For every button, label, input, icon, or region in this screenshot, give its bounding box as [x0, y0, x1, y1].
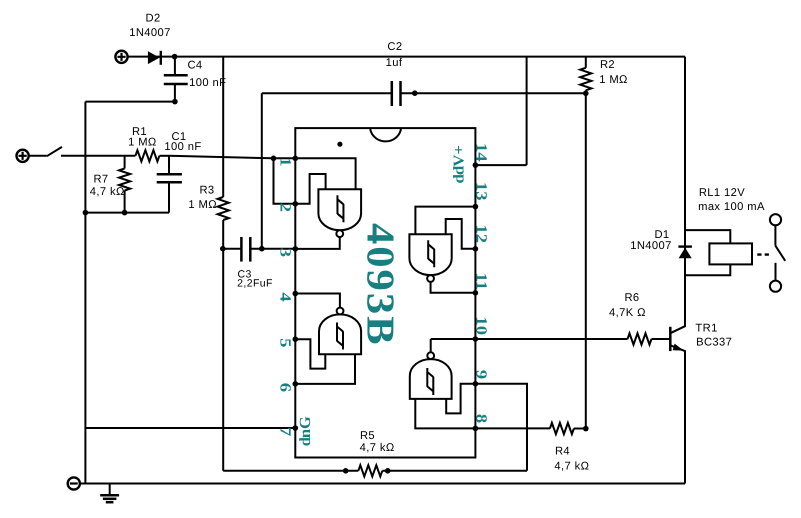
svg-text:100 nF: 100 nF	[189, 77, 226, 89]
svg-text:5: 5	[277, 338, 294, 348]
svg-text:1N4007: 1N4007	[630, 240, 672, 252]
svg-text:R7: R7	[93, 174, 108, 186]
svg-text:C4: C4	[187, 60, 202, 72]
svg-text:13: 13	[472, 182, 489, 201]
svg-text:4093B: 4093B	[358, 223, 402, 347]
svg-text:C2: C2	[387, 41, 402, 53]
svg-text:8: 8	[472, 414, 489, 424]
svg-text:d: d	[452, 173, 468, 183]
svg-text:R6: R6	[624, 292, 639, 304]
svg-text:d: d	[297, 437, 314, 447]
svg-text:4,7K Ω: 4,7K Ω	[609, 307, 646, 319]
svg-text:D2: D2	[146, 12, 161, 24]
svg-text:7: 7	[277, 427, 294, 437]
svg-text:G: G	[297, 416, 314, 429]
svg-text:4: 4	[277, 292, 294, 302]
svg-text:12: 12	[472, 225, 489, 244]
svg-text:2: 2	[277, 203, 294, 213]
svg-text:4,7 kΩ: 4,7 kΩ	[90, 186, 125, 198]
svg-text:max 100 mA: max 100 mA	[698, 201, 765, 213]
svg-text:1uf: 1uf	[386, 57, 403, 69]
svg-text:R3: R3	[199, 184, 214, 196]
svg-text:BC337: BC337	[696, 336, 732, 348]
svg-text:1 MΩ: 1 MΩ	[128, 137, 157, 149]
svg-text:2,2FuF: 2,2FuF	[237, 277, 273, 289]
svg-text:RL1 12V: RL1 12V	[699, 187, 745, 199]
svg-text:100 nF: 100 nF	[164, 141, 201, 153]
svg-text:TR1: TR1	[695, 323, 717, 335]
svg-text:1N4007: 1N4007	[129, 27, 171, 39]
svg-text:4,7 kΩ: 4,7 kΩ	[554, 461, 589, 473]
svg-text:4,7 kΩ: 4,7 kΩ	[360, 442, 395, 454]
svg-text:10: 10	[472, 316, 489, 335]
svg-text:11: 11	[472, 273, 489, 291]
svg-text:R2: R2	[600, 59, 615, 71]
svg-text:6: 6	[277, 383, 294, 393]
svg-text:R4: R4	[555, 445, 570, 457]
svg-text:+: +	[452, 145, 468, 155]
svg-text:1 MΩ: 1 MΩ	[188, 199, 217, 211]
svg-text:R5: R5	[360, 430, 375, 442]
svg-text:14: 14	[472, 143, 489, 162]
svg-text:1: 1	[277, 157, 294, 166]
svg-text:3: 3	[277, 248, 294, 258]
svg-text:1 MΩ: 1 MΩ	[599, 74, 628, 86]
svg-text:9: 9	[472, 370, 489, 380]
